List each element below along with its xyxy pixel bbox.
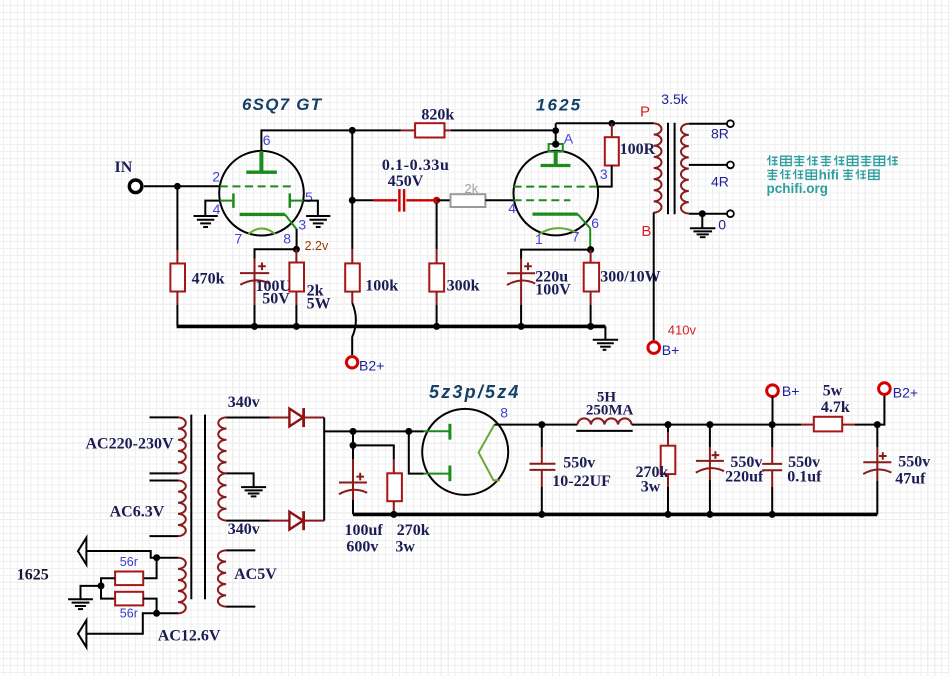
svg-text:220uf: 220uf xyxy=(725,468,764,485)
U2 anode cap xyxy=(549,144,563,152)
svg-text:3: 3 xyxy=(600,166,608,182)
terminal B2+ bottom xyxy=(879,383,891,395)
svg-text:AC5V: AC5V xyxy=(234,566,277,583)
resistor 820k xyxy=(352,129,401,131)
node 270k-2 top xyxy=(665,421,672,428)
svg-text:A: A xyxy=(564,131,574,147)
node 100uf top xyxy=(350,428,357,435)
terminal B2+ top xyxy=(346,357,357,368)
svg-text:8: 8 xyxy=(283,230,291,246)
svg-text:300k: 300k xyxy=(447,277,480,294)
capacitor 550v 10-22UF xyxy=(541,425,543,447)
node anode cap xyxy=(552,141,559,148)
resistor 56r bottom xyxy=(115,592,143,606)
U2 screen grid (dashed) xyxy=(514,186,598,188)
node plate junction xyxy=(349,127,356,134)
bus top section xyxy=(177,325,606,329)
terminal IN xyxy=(129,180,142,193)
U1 diode plate pin5 xyxy=(291,200,304,202)
resistor 300/10W xyxy=(584,263,599,292)
svg-text:IN: IN xyxy=(115,159,133,176)
wire 220uf to bus xyxy=(709,480,711,514)
capacitor 100U 50V xyxy=(254,259,256,274)
wire to heater ground xyxy=(81,586,102,599)
wire cathode down green xyxy=(589,228,591,249)
ground right of U1 xyxy=(306,216,330,227)
ground center tap xyxy=(241,487,266,496)
svg-text:1625: 1625 xyxy=(17,567,49,584)
transformer T2 winding AC12.6V xyxy=(178,558,186,614)
svg-text:B+: B+ xyxy=(782,383,800,399)
node bus 300k xyxy=(433,323,440,330)
resistor 100R xyxy=(605,137,619,165)
node 10-22UF top xyxy=(538,421,545,428)
resistor 2k 5W xyxy=(289,263,304,292)
wire B lead down xyxy=(653,213,655,341)
node 270k branch xyxy=(350,442,357,449)
terminal B+ bottom xyxy=(767,385,779,397)
U2 filament xyxy=(539,228,578,234)
terminal B+ top xyxy=(648,342,660,354)
node 220uf top xyxy=(706,421,713,428)
node bus 270k xyxy=(390,511,397,518)
wire red junction down to 300k xyxy=(436,203,438,249)
svg-text:7: 7 xyxy=(572,228,580,244)
svg-text:B+: B+ xyxy=(662,342,680,358)
ground heater xyxy=(68,599,93,609)
node input junction xyxy=(174,183,181,190)
svg-text:100R: 100R xyxy=(620,141,656,158)
wire B+ down xyxy=(772,397,774,425)
svg-text:5w: 5w xyxy=(823,383,843,400)
node 56r top xyxy=(153,554,160,561)
U1 grid (dashed) xyxy=(220,185,291,187)
wire 270k to bus xyxy=(393,501,395,514)
diode D1 xyxy=(289,408,303,427)
node bus 270k-2 xyxy=(665,511,672,518)
svg-text:4R: 4R xyxy=(711,173,729,189)
U3 filament xyxy=(479,425,500,481)
svg-text:3w: 3w xyxy=(641,479,661,496)
ground left of U1 xyxy=(194,216,218,227)
svg-text:550v: 550v xyxy=(898,454,930,471)
svg-text:1: 1 xyxy=(535,231,543,247)
svg-text:470k: 470k xyxy=(192,270,225,287)
svg-text:AC6.3V: AC6.3V xyxy=(110,504,165,521)
node cathode junction xyxy=(293,246,300,253)
svg-text:300/10W: 300/10W xyxy=(600,268,660,285)
node 820k to anode xyxy=(552,127,559,134)
arrow heater top xyxy=(78,538,86,565)
svg-text:50V: 50V xyxy=(262,291,290,308)
svg-text:B: B xyxy=(641,223,651,240)
capacitor 550v 47uf xyxy=(876,425,878,447)
wire pin3 cathode down xyxy=(296,229,298,249)
wire 100k hop over bus to B2+ xyxy=(351,292,353,303)
resistor 56r top xyxy=(115,572,143,586)
svg-text:0.1uf: 0.1uf xyxy=(787,468,822,485)
svg-text:550v: 550v xyxy=(563,454,595,471)
svg-text:820k: 820k xyxy=(421,106,454,123)
svg-text:0: 0 xyxy=(718,217,726,233)
transformer T2 core xyxy=(191,415,205,600)
svg-text:AC220-230V: AC220-230V xyxy=(86,436,174,453)
svg-text:6SQ7 GT: 6SQ7 GT xyxy=(242,95,323,114)
U1 diode plate pin4 xyxy=(220,200,233,202)
resistor 270k 3w first xyxy=(387,473,402,501)
svg-text:100k: 100k xyxy=(365,277,398,294)
capacitor 0.1-0.33u 450V xyxy=(352,199,373,201)
svg-text:B2+: B2+ xyxy=(893,384,918,400)
wire 100uf branch xyxy=(352,431,354,445)
watermark line 2 xyxy=(767,167,879,182)
wire pin4 to ground xyxy=(205,201,220,216)
svg-text:8: 8 xyxy=(500,404,508,420)
svg-text:450V: 450V xyxy=(388,173,424,190)
U3 anode bottom xyxy=(424,473,450,475)
node 0.1uf top xyxy=(769,421,776,428)
svg-text:600v: 600v xyxy=(346,538,378,555)
ground at 0 tap xyxy=(701,214,703,228)
transformer T2 winding AC6.3V xyxy=(150,480,179,482)
node 47uf top xyxy=(874,421,881,428)
transformer T2 winding AC5V xyxy=(226,549,255,551)
U2 cathode xyxy=(533,213,578,216)
node bus 220uf xyxy=(706,511,713,518)
node coupling junction xyxy=(349,197,356,204)
svg-text:340v: 340v xyxy=(228,521,260,538)
wire rectified vertical xyxy=(323,418,325,521)
terminal 0 xyxy=(727,210,734,217)
tube U3 5z3p envelope xyxy=(422,409,508,495)
transformer T1 core xyxy=(668,123,675,215)
wire junction down xyxy=(351,130,353,200)
svg-text:6: 6 xyxy=(591,215,599,231)
resistor 300k xyxy=(429,263,444,291)
diode D2 xyxy=(289,511,303,530)
ground at bus right end xyxy=(604,326,606,339)
svg-text:5: 5 xyxy=(305,189,313,205)
wire IN to grid xyxy=(144,185,220,187)
wire junction to 100k xyxy=(351,200,353,249)
svg-text:P: P xyxy=(640,103,650,120)
wire junction to 300-10W xyxy=(590,250,592,263)
wire anode vertical xyxy=(555,123,557,144)
svg-text:2.2v: 2.2v xyxy=(305,239,329,253)
wire choke to caps xyxy=(632,424,801,426)
svg-text:100V: 100V xyxy=(535,282,571,299)
U1 plate xyxy=(259,151,263,171)
transformer T1 secondary winding xyxy=(681,124,689,214)
terminal 8R xyxy=(727,120,734,127)
svg-text:AC12.6V: AC12.6V xyxy=(158,628,221,645)
node bus 220u xyxy=(518,323,525,330)
capacitor 220u 100V xyxy=(520,259,522,274)
wire junction to 2k5W xyxy=(295,249,297,262)
svg-text:2: 2 xyxy=(212,168,220,184)
svg-text:270k: 270k xyxy=(397,522,430,539)
svg-text:0.1-0.33u: 0.1-0.33u xyxy=(382,157,450,174)
svg-text:340v: 340v xyxy=(228,394,260,411)
svg-text:7: 7 xyxy=(235,230,243,246)
U2 control grid (dashed) xyxy=(514,199,571,201)
capacitor 100uf 600v xyxy=(352,445,354,459)
transformer T2 winding AC220-230V xyxy=(150,416,179,418)
wire rectified to tube xyxy=(324,430,423,432)
wire 0 tap thick xyxy=(689,213,727,215)
arrow heater bottom xyxy=(78,620,86,647)
terminal 4R xyxy=(727,162,734,169)
node bus 0.1uf xyxy=(769,511,776,518)
node 56r bottom xyxy=(153,610,160,617)
wire 8R tap xyxy=(689,123,727,125)
wire 300-10W to bus xyxy=(590,292,592,306)
wire 10-22UF to bus xyxy=(541,487,543,514)
wire branch to 270k xyxy=(353,445,394,459)
tube U1 6SQ7 envelope xyxy=(219,151,304,236)
capacitor 550v 220uf xyxy=(709,425,711,447)
bus bottom section xyxy=(353,513,877,517)
wire junction down to 470k xyxy=(176,186,178,250)
wire arrow to winding top xyxy=(86,551,178,558)
U2 plate xyxy=(554,152,558,164)
svg-text:5z3p/5z4: 5z3p/5z4 xyxy=(429,382,521,402)
svg-text:56r: 56r xyxy=(120,555,138,569)
node bus 300-10W xyxy=(587,323,594,330)
resistor 470k xyxy=(170,264,185,292)
svg-text:8R: 8R xyxy=(711,126,729,142)
svg-text:4: 4 xyxy=(213,201,221,217)
wire pin5 to ground xyxy=(304,201,318,216)
wire 100U to bus xyxy=(254,305,256,326)
wire pin6 top xyxy=(261,130,352,151)
node plate jog xyxy=(405,428,412,435)
U1 filament xyxy=(248,228,275,234)
resistor 270k 3w second xyxy=(661,446,676,474)
tube U2 1625 envelope xyxy=(514,151,599,236)
node bus 10-22UF xyxy=(538,511,545,518)
wire junction to cap xyxy=(255,249,297,258)
wire pin8 main B line xyxy=(494,424,577,426)
svg-text:1625: 1625 xyxy=(536,96,582,115)
wire jog to lower plate xyxy=(409,431,424,473)
wire 47uf to bus xyxy=(876,481,878,514)
wire 100R to pin3 xyxy=(597,166,611,187)
watermark line 1 xyxy=(767,155,898,165)
wire HV top to diode xyxy=(227,417,270,419)
svg-text:pchifi.org: pchifi.org xyxy=(767,181,829,196)
wire 220u to bus xyxy=(520,305,522,326)
svg-text:10-22UF: 10-22UF xyxy=(552,473,611,490)
wire 2k5W to bus xyxy=(295,292,297,306)
node U2 cathode junction xyxy=(587,246,594,253)
svg-text:4.7k: 4.7k xyxy=(821,399,850,416)
U3 anode top xyxy=(424,430,450,432)
svg-text:4: 4 xyxy=(508,200,516,216)
transformer T1 primary winding xyxy=(654,123,662,212)
U1 cathode xyxy=(240,213,285,216)
svg-text:3w: 3w xyxy=(395,538,415,555)
transformer T2 winding HV 340-0-340 xyxy=(218,417,226,520)
svg-text:100uf: 100uf xyxy=(345,522,384,539)
svg-text:410v: 410v xyxy=(668,322,697,337)
wire to 56r top xyxy=(143,558,156,579)
svg-text:3.5k: 3.5k xyxy=(661,91,688,107)
node 56r left xyxy=(98,582,105,589)
node 0 tap xyxy=(699,210,706,217)
wire HV bottom to diode xyxy=(227,520,270,522)
wire 4R tap xyxy=(689,164,727,166)
resistor 100k xyxy=(345,263,360,291)
inductor 5H 250MA xyxy=(577,418,631,424)
wire 56r bottom to node xyxy=(143,599,156,614)
wire 470k to bus xyxy=(176,292,178,306)
wire to 270k-2 xyxy=(667,425,669,432)
wire HV center tap xyxy=(227,473,254,486)
node 100R top xyxy=(608,120,615,127)
node bus 100U xyxy=(251,323,258,330)
wire junction left to 220u xyxy=(521,250,591,259)
svg-text:250MA: 250MA xyxy=(586,403,634,419)
wire 0.1uf to bus xyxy=(771,487,773,514)
node bus 2k5W xyxy=(293,323,300,330)
wire 56r left join xyxy=(101,578,115,598)
svg-text:47uf: 47uf xyxy=(895,470,926,487)
svg-text:B2+: B2+ xyxy=(359,357,384,373)
node red junction xyxy=(433,197,440,204)
svg-text:2k: 2k xyxy=(465,181,479,196)
capacitor 550v 0.1uf xyxy=(771,425,773,447)
wire winding bottom to arrow xyxy=(86,613,178,633)
svg-text:5W: 5W xyxy=(307,296,331,313)
svg-text:3: 3 xyxy=(298,216,306,232)
resistor 2k grid-stopper xyxy=(437,199,451,201)
wire 300k to bus xyxy=(436,292,438,305)
wire 270k-2 to bus xyxy=(667,474,669,487)
wire P line xyxy=(556,122,654,124)
svg-text:6: 6 xyxy=(263,132,271,148)
resistor 5w 4.7k xyxy=(801,424,814,426)
svg-text:56r: 56r xyxy=(120,607,138,621)
wire 100R top lead xyxy=(611,123,613,137)
wire 100uf to bus xyxy=(352,500,354,514)
